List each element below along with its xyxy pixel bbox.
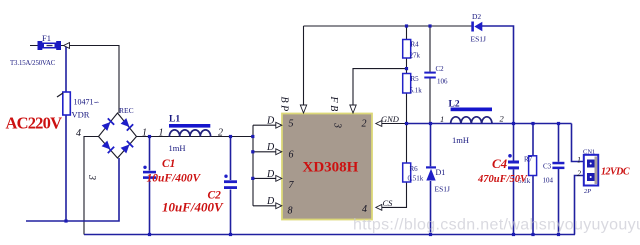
svg-text:REC: REC <box>119 106 134 115</box>
svg-text:D: D <box>266 116 275 127</box>
svg-text:R4: R4 <box>411 41 420 49</box>
svg-text:1mH: 1mH <box>169 143 186 153</box>
svg-text:1: 1 <box>159 128 164 139</box>
svg-text:AC220V: AC220V <box>6 114 63 133</box>
svg-text:R6: R6 <box>410 165 419 173</box>
svg-text:1: 1 <box>142 128 147 139</box>
svg-text:C4: C4 <box>492 156 508 171</box>
svg-text:2: 2 <box>577 169 581 178</box>
svg-text:6: 6 <box>289 150 294 161</box>
svg-text:L1: L1 <box>169 115 180 125</box>
svg-text:1: 1 <box>440 114 444 124</box>
svg-text:8: 8 <box>288 206 293 217</box>
svg-text:10uF/400V: 10uF/400V <box>162 200 224 215</box>
svg-text:FB: FB <box>328 96 339 114</box>
svg-text:0.51k: 0.51k <box>408 175 424 183</box>
svg-text:12VDC: 12VDC <box>601 167 630 178</box>
svg-text:CN1: CN1 <box>583 149 595 156</box>
svg-text:4: 4 <box>76 128 81 139</box>
svg-text:1: 1 <box>577 156 581 165</box>
svg-text:https://blog.csdn.net/wahsnyou: https://blog.csdn.net/wahsnyouyuyouyu <box>353 217 640 234</box>
svg-text:2: 2 <box>362 119 367 130</box>
svg-text:F1: F1 <box>42 33 51 43</box>
svg-text:27k: 27k <box>410 52 421 60</box>
svg-text:4: 4 <box>362 204 367 215</box>
svg-text:10uF/400V: 10uF/400V <box>147 173 202 185</box>
svg-text:GND: GND <box>381 114 400 124</box>
svg-text:VDR: VDR <box>72 110 90 120</box>
svg-text:10471: 10471 <box>74 98 94 107</box>
svg-text:CS: CS <box>383 198 394 208</box>
svg-text:2P: 2P <box>584 188 591 195</box>
svg-text:5.1k: 5.1k <box>410 87 423 95</box>
svg-text:470uF/50V: 470uF/50V <box>477 174 528 185</box>
svg-text:ES1J: ES1J <box>471 35 487 44</box>
svg-text:C3: C3 <box>543 163 552 171</box>
svg-text:T3.15A/250VAC: T3.15A/250VAC <box>10 60 56 67</box>
svg-text:104: 104 <box>543 177 554 185</box>
svg-text:D: D <box>266 196 275 207</box>
svg-text:D1: D1 <box>436 168 446 177</box>
svg-text:L2: L2 <box>449 99 460 109</box>
svg-text:ES1J: ES1J <box>435 185 451 194</box>
svg-text:D: D <box>266 169 275 180</box>
svg-text:C2: C2 <box>436 65 445 73</box>
svg-text:∽: ∽ <box>94 99 100 107</box>
svg-text:R7: R7 <box>524 156 533 164</box>
svg-text:106: 106 <box>437 78 448 86</box>
svg-text:XD308H: XD308H <box>303 160 359 176</box>
svg-text:3: 3 <box>332 122 343 128</box>
svg-text:1mH: 1mH <box>452 135 469 145</box>
svg-text:R5: R5 <box>411 75 420 83</box>
svg-text:5: 5 <box>289 119 294 130</box>
svg-text:BP: BP <box>279 97 290 114</box>
svg-text:C1: C1 <box>162 158 175 170</box>
svg-text:D: D <box>266 142 275 153</box>
svg-text:2: 2 <box>218 128 223 139</box>
svg-text:D2: D2 <box>472 12 481 21</box>
svg-text:3: 3 <box>86 174 97 180</box>
